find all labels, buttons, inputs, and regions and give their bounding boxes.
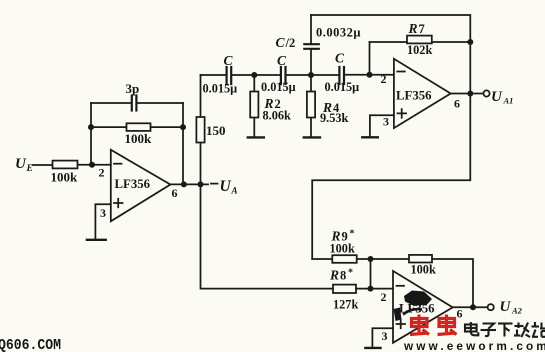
- wire R8 to U3 pin2: [356, 288, 393, 290]
- svg-text:6: 6: [454, 97, 460, 111]
- resistor R2 8.06k: [253, 75, 255, 137]
- U3 minus sign: [397, 285, 405, 287]
- svg-text:*: *: [348, 268, 353, 279]
- svg-text:/2: /2: [285, 36, 296, 50]
- svg-text:Q606.COM: Q606.COM: [0, 338, 61, 352]
- node U_A1 output terminal: [483, 90, 489, 96]
- resistor R9* 100k: [332, 255, 356, 263]
- capacitor C/2 0.0032u: [310, 15, 312, 75]
- U3 plus sign: [397, 320, 406, 329]
- wire U1 pin2 stub: [92, 164, 111, 166]
- node U2 output junction: [467, 91, 473, 97]
- resistor R4 9.53k: [310, 75, 312, 137]
- svg-text:3: 3: [383, 115, 389, 129]
- node U_A output junction: [198, 181, 204, 187]
- svg-text:0.015μ: 0.015μ: [261, 80, 296, 94]
- op-amp U2 LF356: [394, 59, 451, 128]
- svg-text:100k: 100k: [125, 131, 153, 146]
- wire 3p branch left: [91, 102, 131, 104]
- watermark red character chong #2: [438, 315, 457, 335]
- svg-text:8: 8: [340, 269, 346, 283]
- node R9/R8 junction upper: [368, 256, 374, 262]
- wire U3 output: [453, 306, 488, 308]
- ground (U1 pin3): [87, 239, 106, 241]
- op-amp U3 LF356: [393, 271, 453, 343]
- U2 minus sign: [397, 71, 405, 73]
- watermark red character chong #1: [410, 315, 429, 335]
- ground (R2): [248, 136, 264, 138]
- wire N3 up to R7 rail: [369, 42, 371, 75]
- svg-text:www.eeworm.com: www.eeworm.com: [403, 339, 545, 352]
- svg-text:3: 3: [382, 329, 388, 343]
- svg-text:LF356: LF356: [115, 177, 151, 191]
- wire pin2 node up to feedback branches: [90, 103, 92, 165]
- svg-text:U: U: [491, 89, 503, 105]
- watermark black blotch left of U3 plus: [394, 308, 402, 322]
- wire U2 output down to R9 branch: [312, 94, 470, 260]
- svg-text:127k: 127k: [333, 298, 358, 312]
- capacitor 3p: [132, 96, 137, 111]
- wire R7 node down to U2 output: [469, 42, 471, 94]
- svg-text:C: C: [277, 53, 287, 68]
- watermark text xia (down): [498, 324, 513, 337]
- capacitor C (first, 0.015u): [227, 67, 232, 84]
- wire U2 pin3 to ground: [370, 115, 394, 136]
- wire ladder rail segment 3: [286, 74, 338, 76]
- op-amp U1 LF356: [111, 150, 171, 222]
- svg-text:102k: 102k: [407, 43, 432, 57]
- wire ladder rail segment 4 (to U2 pin 2): [345, 74, 394, 76]
- svg-text:0.015μ: 0.015μ: [203, 82, 238, 96]
- node U_A2 output terminal: [488, 304, 494, 310]
- svg-text:2: 2: [99, 166, 105, 180]
- svg-text:E: E: [26, 164, 33, 174]
- node ladder N1 (R2 junction): [251, 72, 257, 78]
- svg-text:100k: 100k: [411, 263, 436, 277]
- wire feedback right vertical down to output: [182, 103, 184, 184]
- watermark text zi (child): [481, 324, 497, 337]
- svg-text:A1: A1: [503, 95, 514, 105]
- resistor 100k (U1 feedback): [127, 123, 151, 131]
- svg-text:U: U: [15, 156, 27, 172]
- svg-text:8.06k: 8.06k: [263, 109, 292, 123]
- svg-text:100k: 100k: [51, 170, 79, 185]
- wire ladder rail segment 1: [201, 74, 226, 76]
- svg-text:U: U: [220, 178, 232, 195]
- wire U3 feedback rail: [371, 259, 474, 307]
- watermark text zhan (station): [532, 322, 545, 337]
- watermark black blob over U3: [404, 291, 432, 307]
- svg-text:7: 7: [419, 22, 425, 36]
- resistor R8* 127k: [333, 285, 356, 293]
- wire 3p branch right: [137, 102, 183, 104]
- wire 100k feedback branch: [91, 126, 183, 128]
- svg-text:C: C: [224, 53, 234, 68]
- ground (U2 pin3): [362, 136, 378, 138]
- U1 minus sign: [114, 163, 122, 165]
- node ladder N2 (R4 / C2 junction): [308, 72, 314, 78]
- watermark text dian (electric): [465, 322, 478, 335]
- svg-text:*: *: [350, 229, 355, 240]
- capacitor C (third, 0.015u): [339, 67, 344, 84]
- svg-text:A2: A2: [511, 305, 523, 315]
- resistor 100k (input): [53, 161, 78, 169]
- svg-text:150: 150: [206, 123, 226, 138]
- svg-text:A: A: [231, 186, 238, 196]
- wire R input to pin2 node: [78, 164, 93, 166]
- U1 plus sign: [114, 199, 123, 208]
- capacitor C (second, 0.015u): [281, 67, 286, 84]
- svg-text:0.015μ: 0.015μ: [325, 80, 360, 94]
- wire top rail (C/2 to U2 feedback node): [311, 15, 470, 42]
- wire R7 rail: [370, 41, 471, 43]
- wire U_A node up to ladder: [200, 75, 202, 184]
- wire U_A node down to R8: [201, 184, 334, 288]
- watermark black arc under blob: [403, 309, 422, 314]
- U2 plus sign: [398, 109, 407, 118]
- resistor R7 102k: [407, 36, 432, 44]
- svg-text:C: C: [335, 51, 345, 66]
- svg-text:2: 2: [381, 290, 387, 304]
- svg-text:3: 3: [100, 206, 106, 220]
- node at U1 pin 2: [89, 162, 95, 168]
- wire U1 pin3 to ground: [95, 204, 110, 239]
- resistor 150: [196, 117, 204, 143]
- wire input U_E to R input: [33, 164, 53, 166]
- watermark text zai (load): [514, 323, 530, 338]
- svg-text:3p: 3p: [126, 81, 140, 96]
- svg-text:2: 2: [381, 72, 387, 86]
- svg-text:R: R: [408, 21, 418, 36]
- node right end of 100k feedback: [180, 124, 186, 130]
- svg-text:6: 6: [457, 307, 463, 321]
- svg-text:9.53k: 9.53k: [320, 111, 349, 125]
- node -U_A label: [220, 178, 238, 196]
- svg-text:R: R: [329, 268, 339, 283]
- wire ladder rail segment 2: [232, 74, 280, 76]
- node feedback junction on output: [181, 181, 187, 187]
- wire R9 node down to pin2 node: [370, 259, 372, 289]
- svg-text:LF356: LF356: [396, 88, 432, 102]
- node R7/top-rail junction: [467, 39, 473, 45]
- wire U3 pin3 to ground: [372, 328, 393, 347]
- node left end of 100k feedback: [88, 124, 94, 130]
- resistor 100k (U3 feedback): [409, 255, 432, 263]
- svg-text:100k: 100k: [330, 242, 355, 256]
- node U3 output junction: [470, 304, 476, 310]
- svg-text:6: 6: [172, 186, 178, 200]
- wire U2 output: [451, 93, 484, 95]
- node ladder N3 (R7 junction): [367, 72, 373, 78]
- node R8/R9 junction lower (U3 pin2): [368, 286, 374, 292]
- svg-text:C: C: [276, 35, 286, 50]
- svg-text:U: U: [500, 299, 512, 315]
- wire U1 output: [170, 183, 208, 185]
- ground (U3 pin3): [365, 347, 380, 349]
- node U_E input terminal label: [15, 156, 33, 174]
- svg-text:0.0032μ: 0.0032μ: [316, 26, 361, 40]
- ground (R4): [304, 136, 320, 138]
- wire R9 rail: [312, 258, 370, 260]
